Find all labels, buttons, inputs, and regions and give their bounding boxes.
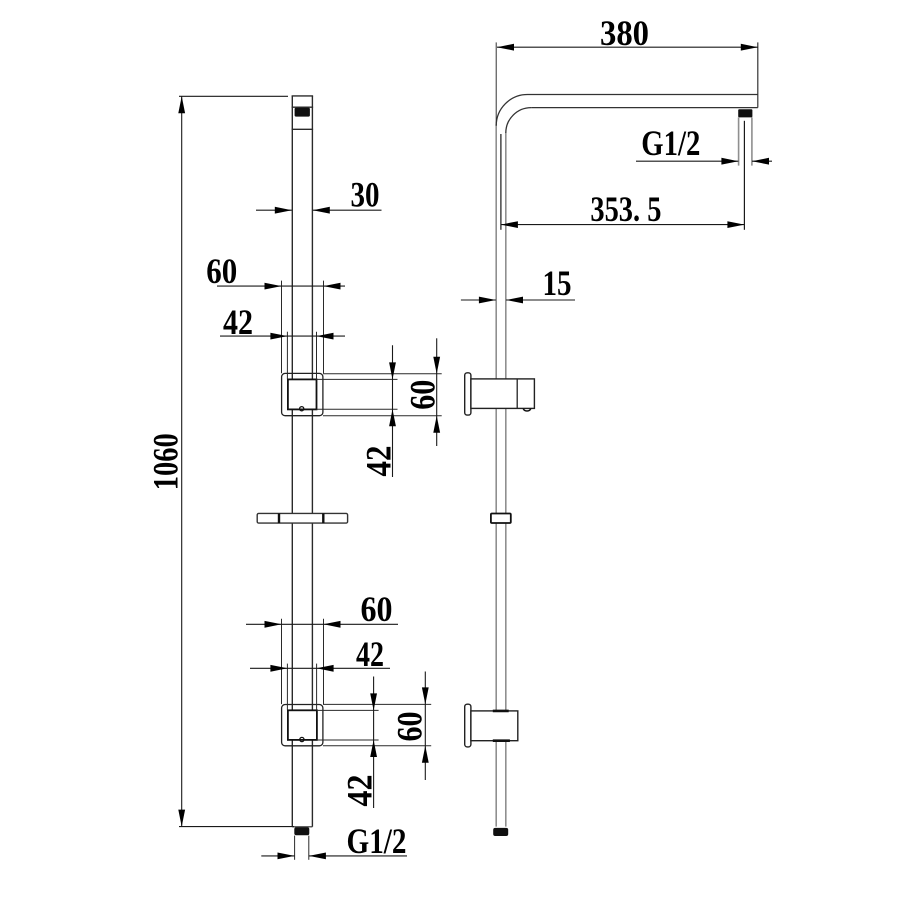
upper bracket outer frame	[282, 373, 323, 415]
right view bottom cap (black)	[493, 828, 508, 836]
dim 42 upper vertical	[317, 345, 398, 477]
right view lower bracket clamp bottom	[493, 739, 510, 742]
svg-text:60: 60	[402, 380, 442, 410]
rail left edge	[291, 96, 293, 827]
dim 42 lower	[250, 664, 390, 710]
rail top cap divider upper	[292, 106, 314, 108]
dim 353.5	[501, 121, 745, 230]
dim 60 upper	[217, 281, 345, 374]
svg-text:380: 380	[600, 13, 649, 53]
svg-text:42: 42	[340, 775, 380, 807]
pipe right edge	[505, 133, 507, 827]
right view lower bracket wall flange	[465, 704, 471, 747]
bend inner arc	[506, 108, 531, 133]
upper bracket slider block	[288, 379, 317, 409]
lower bracket outer frame	[282, 705, 323, 746]
rail bottom cap (black)	[294, 827, 309, 835]
svg-text:G1/2: G1/2	[347, 821, 407, 861]
arm right end / 380 right extension	[757, 42, 759, 107]
arm top edge	[528, 94, 758, 96]
drop pipe black nut	[738, 109, 752, 117]
lower bracket screw	[300, 737, 304, 741]
pipe left edge	[495, 125, 497, 827]
svg-text:15: 15	[543, 263, 572, 303]
rail top cap divider lower	[292, 128, 314, 130]
right view lower bracket clamp top	[493, 710, 509, 713]
dim 42 lower vertical	[317, 677, 379, 809]
right view upper bracket wall flange	[465, 373, 471, 415]
dim 60 upper vertical	[323, 338, 442, 446]
drop pipe right edge	[751, 117, 753, 165]
rail top cap black insert	[295, 108, 310, 117]
dim G1/2 bottom	[261, 836, 407, 860]
dim 15	[461, 297, 575, 304]
svg-text:42: 42	[223, 302, 253, 342]
dim 380	[496, 42, 758, 125]
rail bottom edge	[292, 826, 312, 828]
svg-text:60: 60	[389, 712, 429, 742]
dim 1060 line	[178, 96, 294, 826]
upper bracket screw	[300, 407, 304, 411]
shelf (soap dish)	[257, 513, 347, 523]
dim 42 upper	[220, 332, 345, 380]
right view upper bracket divider	[516, 379, 518, 409]
lower bracket slider block	[288, 710, 317, 740]
right view upper bracket body	[471, 379, 535, 409]
dim 60 lower vertical	[323, 672, 431, 781]
svg-text:30: 30	[351, 175, 380, 215]
bend outer arc	[496, 95, 527, 126]
right view upper bracket hook notch	[523, 408, 530, 411]
dim 60 lower	[246, 619, 398, 704]
arm bottom edge	[531, 107, 758, 109]
dim 30	[256, 207, 382, 214]
middle pipe connector	[491, 514, 511, 524]
svg-text:353. 5: 353. 5	[590, 189, 661, 229]
rail right edge	[311, 96, 313, 827]
svg-text:60: 60	[361, 589, 393, 629]
svg-text:42: 42	[358, 446, 398, 477]
rail top edge	[292, 95, 314, 97]
right view lower bracket body	[471, 711, 518, 741]
svg-text:G1/2: G1/2	[641, 123, 700, 163]
svg-text:1060: 1060	[146, 433, 186, 490]
svg-text:60: 60	[206, 251, 237, 291]
drop pipe left edge	[738, 117, 740, 165]
svg-text:42: 42	[356, 634, 384, 674]
dim G1/2 right	[636, 158, 772, 165]
